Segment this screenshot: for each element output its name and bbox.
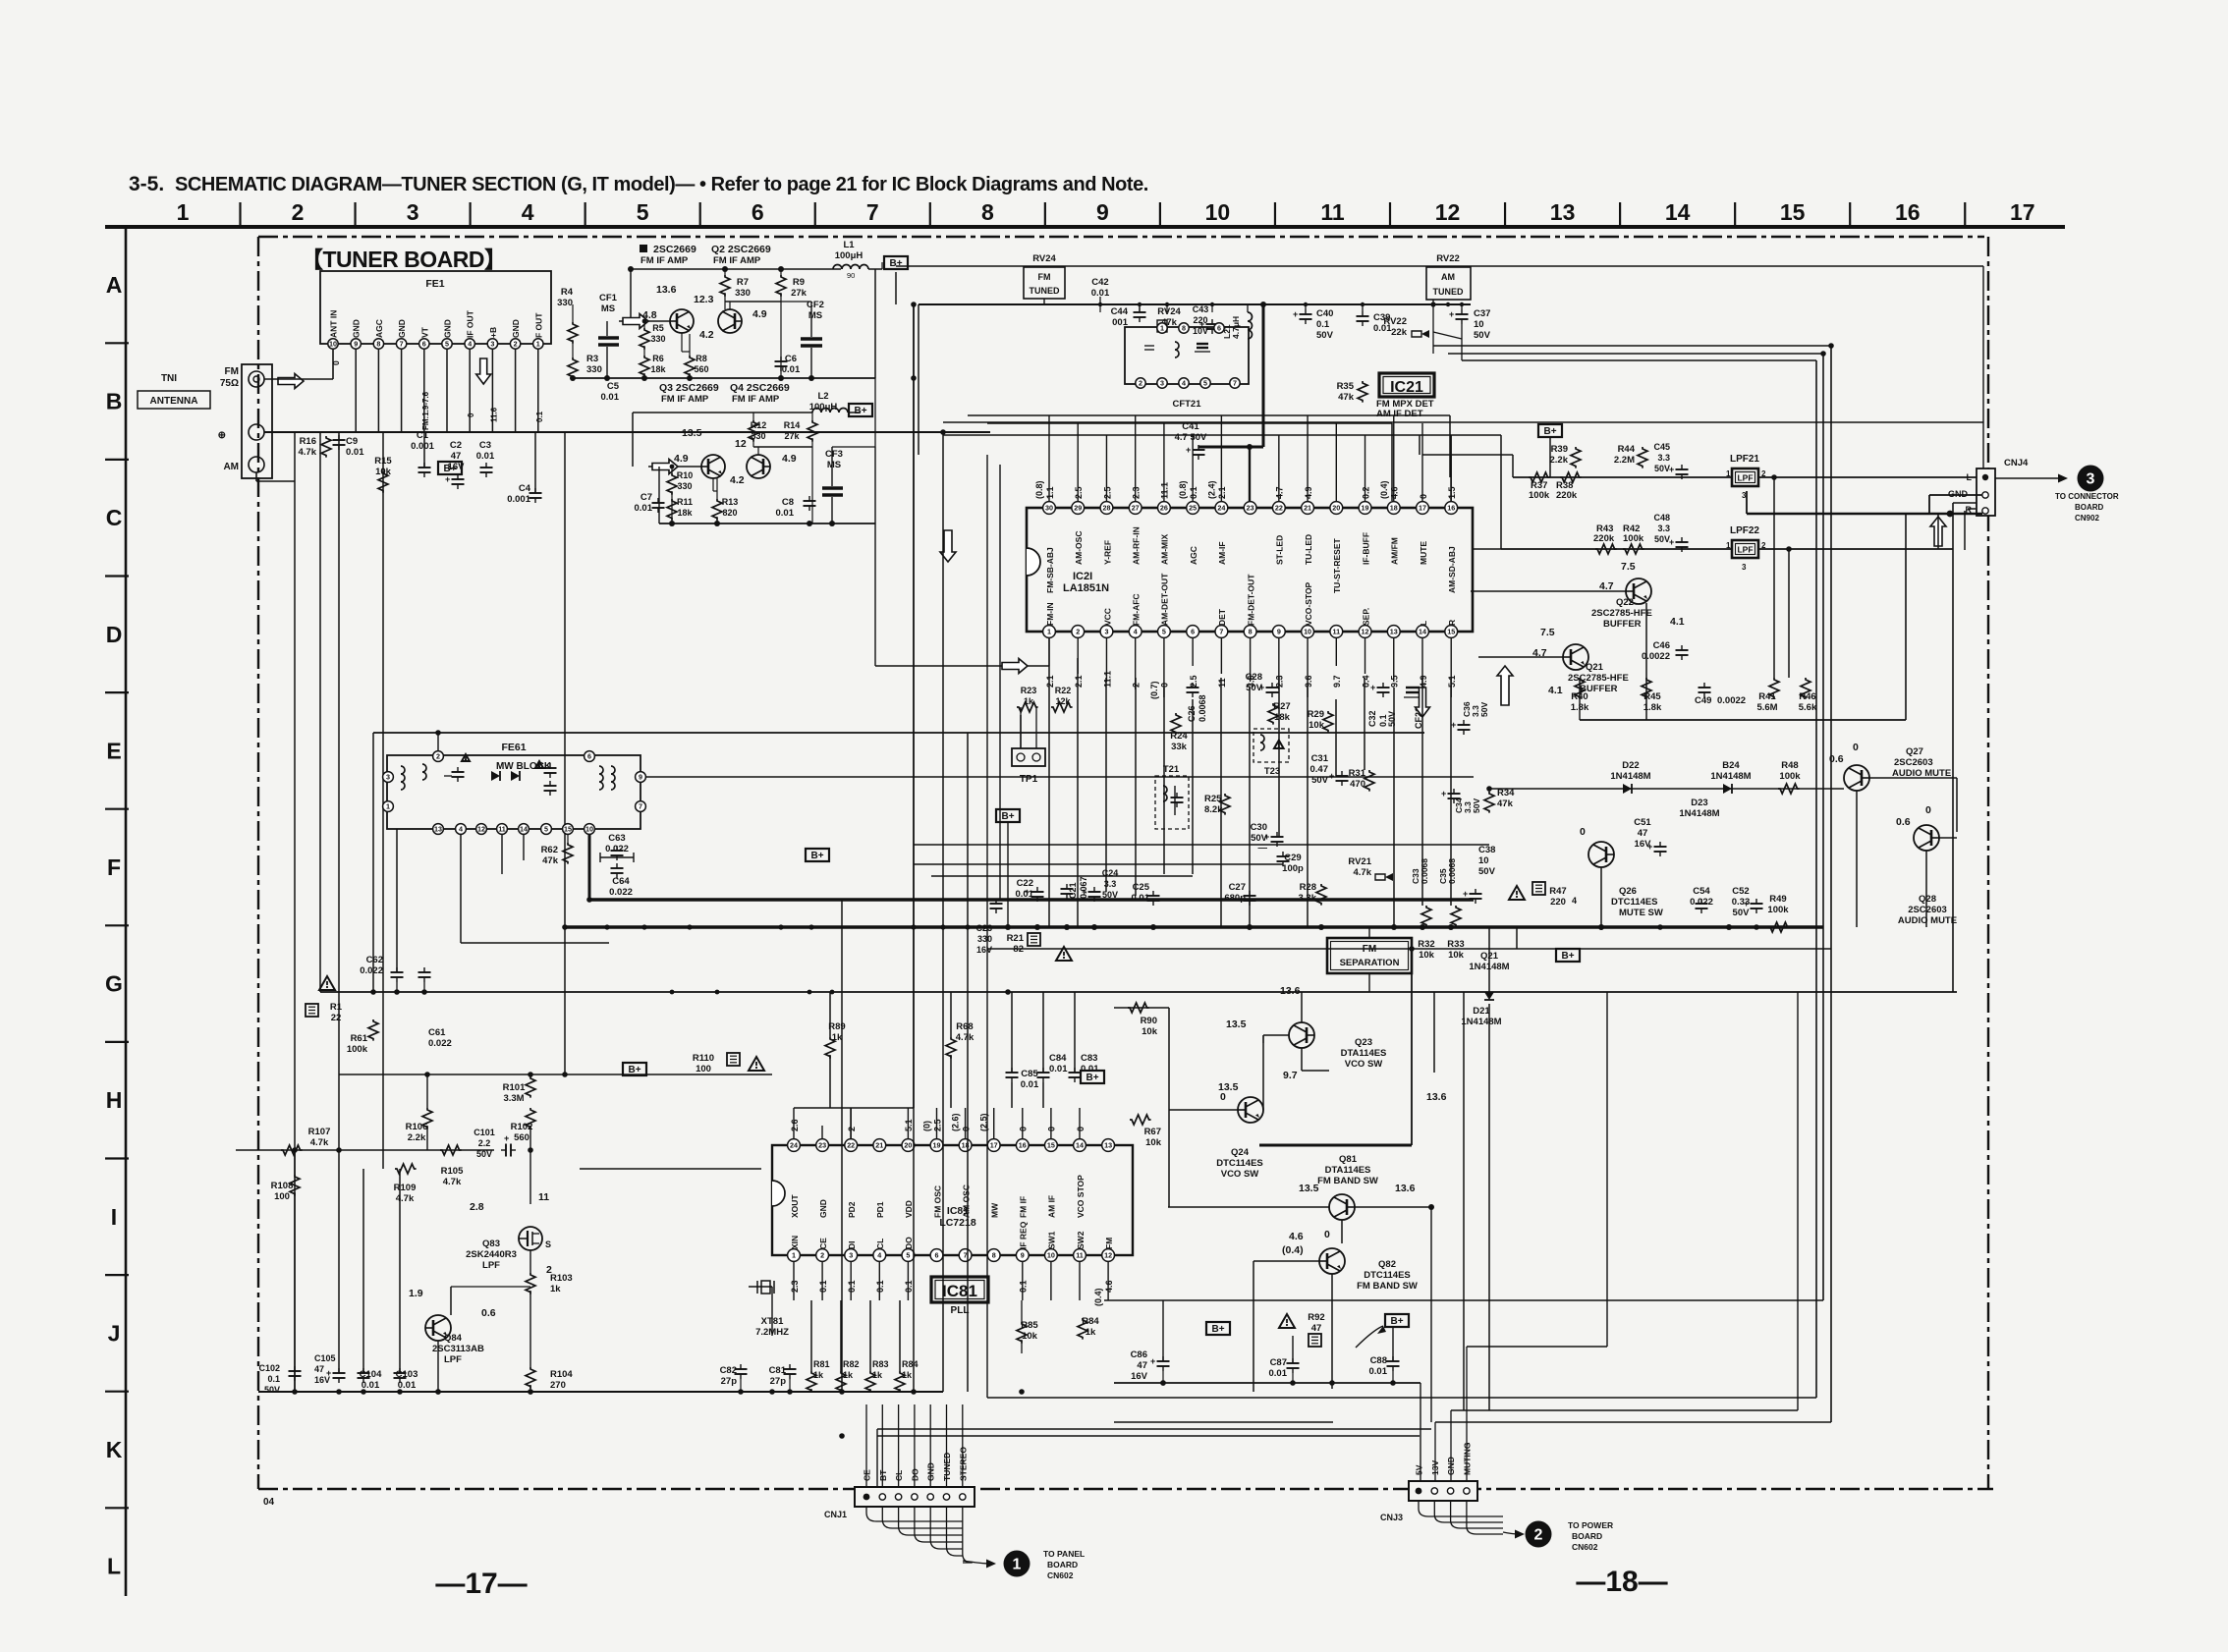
transistor Q28 audio mute	[1914, 825, 1939, 851]
svg-text:+: +	[504, 1133, 509, 1143]
svg-text:100: 100	[274, 1191, 290, 1202]
svg-text:2: 2	[436, 752, 440, 761]
svg-text:PD1: PD1	[875, 1201, 885, 1218]
svg-text:47: 47	[1311, 1323, 1322, 1334]
svg-text:C27: C27	[1229, 882, 1246, 893]
svg-text:7.2MHZ: 7.2MHZ	[755, 1327, 789, 1338]
bus wire y423	[968, 414, 1450, 416]
svg-text:5.6M: 5.6M	[1756, 702, 1777, 713]
transistor Q1	[670, 309, 694, 333]
svg-text:C86: C86	[1131, 1349, 1147, 1360]
svg-text:3.3M: 3.3M	[503, 1093, 524, 1104]
crystal XT81	[771, 1287, 773, 1336]
svg-text:90: 90	[847, 271, 855, 280]
svg-text:DTC114ES: DTC114ES	[1364, 1270, 1411, 1281]
wire LPF22 row	[1501, 548, 1733, 550]
svg-text:47: 47	[1638, 828, 1648, 839]
IC81 pin 1	[788, 1249, 801, 1262]
svg-text:0.067: 0.067	[1079, 876, 1088, 899]
wire Q1 emitter	[681, 333, 683, 352]
vertical x1528	[1500, 435, 1502, 549]
svg-text:75Ω: 75Ω	[220, 378, 239, 389]
front-end block FE1	[320, 271, 551, 344]
svg-text:RV22: RV22	[1383, 316, 1407, 327]
svg-text:0.01: 0.01	[346, 447, 364, 458]
svg-text:R9: R9	[793, 277, 805, 288]
svg-text:C26: C26	[1187, 705, 1197, 722]
svg-text:13.5: 13.5	[1299, 1183, 1319, 1194]
svg-text:330: 330	[677, 481, 692, 491]
B+ feed wire top right	[896, 265, 1983, 267]
svg-text:+: +	[1150, 1356, 1155, 1366]
svg-text:+: +	[1744, 899, 1749, 909]
svg-text:R101: R101	[503, 1082, 526, 1093]
svg-text:13: 13	[1104, 1141, 1112, 1150]
svg-text:22: 22	[1275, 504, 1283, 513]
IC2 pin 7	[1215, 626, 1228, 638]
IC2 pin 14	[1417, 626, 1429, 638]
svg-text:16V: 16V	[1131, 1371, 1148, 1382]
svg-text:50V: 50V	[1472, 798, 1481, 813]
svg-text:2.5: 2.5	[1102, 486, 1112, 499]
FE61 pin 1	[383, 801, 394, 812]
svg-text:C84: C84	[1049, 1053, 1067, 1064]
open arrow below IF OUT	[476, 358, 491, 384]
svg-text:GND: GND	[1948, 489, 1969, 499]
svg-text:BOARD: BOARD	[1572, 1531, 1602, 1541]
verticals under IC2 to rails	[1048, 666, 1050, 927]
svg-text:B+: B+	[889, 258, 902, 269]
IC81 pin 23	[816, 1139, 829, 1152]
svg-text:(2.6): (2.6)	[951, 1113, 961, 1131]
svg-text:5: 5	[906, 1251, 910, 1260]
svg-text:5.1: 5.1	[1447, 675, 1457, 688]
svg-text:LPF: LPF	[482, 1260, 500, 1271]
svg-text:FM-IN: FM-IN	[1045, 602, 1055, 626]
B+ box FE61	[806, 849, 829, 861]
tuner board border right	[1987, 237, 1989, 1489]
svg-text:R81: R81	[813, 1359, 830, 1369]
svg-text:+: +	[1451, 720, 1456, 730]
buffer cell bottom rail	[1580, 719, 1906, 721]
svg-text:R47: R47	[1549, 886, 1566, 897]
svg-text:FM-SB-ABJ: FM-SB-ABJ	[1045, 547, 1055, 593]
arrow into Q3	[648, 466, 701, 468]
svg-text:28: 28	[1102, 504, 1110, 513]
svg-text:FM: FM	[1038, 272, 1051, 282]
FE1 pin 5 GND	[442, 339, 452, 349]
svg-text:0.01: 0.01	[476, 451, 495, 462]
svg-text:3: 3	[1104, 628, 1108, 636]
svg-text:LPF: LPF	[1737, 545, 1753, 555]
svg-text:6: 6	[587, 752, 591, 761]
svg-text:0: 0	[961, 1127, 971, 1131]
svg-text:13: 13	[434, 825, 442, 834]
wire y1094	[339, 1074, 772, 1075]
svg-text:13.6: 13.6	[1426, 1091, 1447, 1103]
svg-text:Q4 2SC2669: Q4 2SC2669	[730, 382, 790, 394]
gnd wire cnj4	[1929, 494, 1982, 496]
junction dots various	[911, 375, 917, 381]
svg-text:11.1: 11.1	[1160, 482, 1170, 499]
wires right of IC2 to vertical bus	[1473, 548, 1501, 550]
open arrow down CF21	[1416, 688, 1430, 717]
svg-text:D23: D23	[1691, 798, 1707, 808]
svg-text:3: 3	[849, 1251, 853, 1260]
svg-text:100: 100	[696, 1064, 711, 1074]
IC2 pin 9	[1272, 626, 1285, 638]
svg-text:1: 1	[1726, 541, 1731, 550]
svg-text:BUFFER: BUFFER	[1603, 619, 1642, 630]
svg-text:7: 7	[866, 199, 879, 225]
svg-text:T21: T21	[1163, 764, 1180, 775]
svg-text:CNJ1: CNJ1	[824, 1510, 847, 1519]
svg-text:0: 0	[1853, 742, 1859, 753]
K row wire 2	[877, 1435, 1420, 1437]
svg-text:AUDIO MUTE: AUDIO MUTE	[1898, 915, 1957, 926]
svg-text:DTA114ES: DTA114ES	[1341, 1048, 1387, 1059]
svg-text:330: 330	[735, 288, 751, 299]
svg-text:GND: GND	[818, 1199, 828, 1218]
svg-text:Q83: Q83	[482, 1239, 500, 1249]
svg-text:47k: 47k	[1338, 392, 1355, 403]
svg-text:IC2I: IC2I	[1073, 571, 1092, 582]
svg-text:1N4148M: 1N4148M	[1710, 771, 1751, 782]
wire Q26 emitter down	[1600, 867, 1602, 927]
svg-text:FM BAND SW: FM BAND SW	[1357, 1281, 1418, 1292]
B+ box J row	[1385, 1314, 1409, 1327]
svg-text:Q84: Q84	[444, 1333, 463, 1344]
svg-text:0.0068: 0.0068	[1420, 858, 1429, 884]
svg-text:9.7: 9.7	[1332, 675, 1342, 688]
svg-text:50V: 50V	[264, 1385, 280, 1395]
upper IF amp bottom rail	[573, 377, 875, 379]
svg-text:C51: C51	[1634, 817, 1651, 828]
svg-text:SEP.: SEP.	[1361, 608, 1370, 626]
svg-text:15: 15	[1447, 628, 1455, 636]
svg-text:GND: GND	[511, 319, 521, 338]
svg-text:7.5: 7.5	[1540, 627, 1555, 638]
svg-text:F: F	[107, 854, 121, 880]
svg-text:FE61: FE61	[501, 742, 526, 753]
svg-text:6: 6	[1217, 324, 1221, 333]
svg-text:330: 330	[977, 934, 992, 944]
IC81 pin 15	[1045, 1139, 1058, 1152]
svg-text:2.2k: 2.2k	[1550, 455, 1569, 466]
svg-text:+B: +B	[488, 327, 498, 338]
svg-text:R107: R107	[308, 1127, 331, 1137]
svg-text:0: 0	[1324, 1229, 1330, 1240]
wire y1190	[580, 1168, 761, 1170]
IC2 pin 28	[1100, 502, 1113, 515]
svg-text:Q23: Q23	[1355, 1037, 1372, 1048]
svg-text:0.01: 0.01	[1369, 1366, 1388, 1377]
svg-text:E: E	[106, 738, 121, 763]
svg-text:50V: 50V	[1654, 534, 1670, 544]
svg-text:4.9: 4.9	[752, 308, 767, 320]
svg-text:1: 1	[792, 1251, 796, 1260]
svg-text:30: 30	[1045, 504, 1053, 513]
wire FM SEP stub	[1368, 973, 1370, 992]
svg-text:50V: 50V	[1387, 711, 1397, 727]
B+ box L1	[884, 256, 908, 269]
svg-text:+: +	[1441, 789, 1446, 798]
svg-text:5: 5	[637, 199, 649, 225]
svg-text:XOUT: XOUT	[790, 1194, 800, 1218]
svg-text:C105: C105	[314, 1353, 336, 1363]
svg-text:(0.8): (0.8)	[1034, 480, 1044, 499]
IC2 bottom pin wires	[1048, 638, 1050, 667]
transformer T23 dashed	[1253, 729, 1289, 762]
top ruler ticks	[239, 202, 241, 227]
svg-text:VDD: VDD	[904, 1200, 914, 1218]
svg-text:TP1: TP1	[1020, 774, 1038, 785]
wire bus from IC81 top to left	[794, 1107, 914, 1109]
svg-text:100k: 100k	[1623, 533, 1644, 544]
LPF vertical wires	[529, 1126, 531, 1204]
svg-text:AGC: AGC	[1189, 546, 1198, 565]
svg-text:4: 4	[1134, 628, 1138, 636]
FE61 pin 2	[433, 751, 444, 762]
svg-text:2SC2603: 2SC2603	[1908, 905, 1947, 915]
FE1 pin 1 F OUT	[533, 339, 543, 349]
svg-text:220k: 220k	[1556, 490, 1578, 501]
svg-text:PLL: PLL	[951, 1305, 970, 1316]
svg-text:4: 4	[1182, 379, 1186, 388]
svg-text:2: 2	[292, 199, 305, 225]
wire LPF21 row	[1513, 476, 1733, 478]
svg-text:20: 20	[904, 1141, 912, 1150]
svg-text:2SC3113AB: 2SC3113AB	[432, 1344, 484, 1354]
FE61 pin 9	[636, 772, 646, 783]
svg-text:2.5: 2.5	[1074, 486, 1084, 499]
svg-text:50V: 50V	[1654, 464, 1670, 473]
svg-text:AM-IF: AM-IF	[1217, 541, 1227, 565]
wire y1371 to CNJ3 muting	[1467, 1346, 1607, 1348]
svg-text:GND: GND	[397, 319, 407, 338]
svg-text:560: 560	[514, 1132, 529, 1143]
transistor Q4	[747, 455, 770, 478]
svg-text:PD2: PD2	[847, 1201, 857, 1218]
svg-text:23: 23	[1247, 504, 1254, 513]
svg-text:9.5: 9.5	[1390, 675, 1400, 688]
svg-text:2.5: 2.5	[932, 1119, 942, 1131]
svg-text:100k: 100k	[1767, 905, 1789, 915]
svg-text:0.1: 0.1	[904, 1280, 914, 1293]
svg-text:R11: R11	[677, 497, 693, 507]
svg-text:RV24: RV24	[1032, 253, 1056, 264]
wire R90 to Q23	[1114, 1007, 1169, 1009]
svg-text:2.1: 2.1	[1045, 675, 1055, 688]
IC2 pin 30	[1043, 502, 1056, 515]
IC2 pin 24	[1215, 502, 1228, 515]
svg-text:1N4148M: 1N4148M	[1469, 962, 1509, 972]
svg-text:6: 6	[935, 1251, 939, 1260]
svg-text:4.7k: 4.7k	[956, 1032, 975, 1043]
IC81 pin 12	[1102, 1249, 1115, 1262]
svg-text:2.8: 2.8	[470, 1201, 484, 1213]
svg-text:4.6: 4.6	[1289, 1231, 1304, 1242]
svg-text:C44: C44	[1111, 306, 1129, 317]
CNJ1 pin wires to panel	[866, 1507, 963, 1521]
svg-text:R22: R22	[1055, 686, 1072, 695]
svg-text:21: 21	[875, 1141, 883, 1150]
svg-text:CE: CE	[818, 1238, 828, 1249]
svg-text:0.022: 0.022	[360, 965, 383, 976]
svg-text:C28: C28	[1246, 672, 1262, 683]
svg-text:20: 20	[1332, 504, 1340, 513]
svg-text:B+: B+	[443, 464, 456, 474]
svg-text:4.7k: 4.7k	[396, 1193, 415, 1204]
svg-text:0: 0	[1419, 494, 1428, 499]
rail y1010	[320, 991, 1957, 993]
arrow from FM jack	[278, 374, 304, 389]
svg-text:CF1: CF1	[599, 293, 618, 303]
svg-text:R92: R92	[1308, 1312, 1324, 1323]
svg-text:2.3: 2.3	[790, 1280, 800, 1293]
svg-text:R62: R62	[541, 845, 558, 855]
svg-text:11.1: 11.1	[1102, 671, 1112, 688]
svg-text:R23: R23	[1021, 686, 1037, 695]
svg-text:2.2k: 2.2k	[408, 1132, 426, 1143]
svg-text:27: 27	[1132, 504, 1140, 513]
svg-text:19: 19	[1362, 504, 1369, 513]
svg-text:4.2: 4.2	[730, 474, 745, 486]
FM TUNED wire stubs	[1099, 304, 1101, 312]
svg-text:FM: FM	[1104, 1238, 1114, 1249]
transistor Q84	[425, 1315, 451, 1341]
svg-text:12.3: 12.3	[694, 294, 714, 305]
svg-text:3: 3	[386, 773, 390, 782]
B+ box H row	[1081, 1071, 1104, 1083]
IC2 top pin wires	[1048, 415, 1050, 502]
extra rail dots	[604, 924, 609, 929]
svg-text:AM-SD-ABJ: AM-SD-ABJ	[1447, 546, 1457, 593]
svg-text:18k: 18k	[677, 508, 693, 518]
svg-text:1N4148M: 1N4148M	[1461, 1017, 1501, 1027]
svg-text:IC81: IC81	[942, 1282, 977, 1300]
IC2 pin 3	[1100, 626, 1113, 638]
IC81 pin 16	[1016, 1139, 1029, 1152]
svg-text:4.1: 4.1	[1670, 616, 1685, 628]
svg-text:+: +	[1463, 889, 1468, 899]
svg-text:0.1: 0.1	[1189, 486, 1198, 499]
svg-text:R90: R90	[1141, 1016, 1157, 1026]
svg-text:+: +	[1186, 445, 1191, 455]
svg-text:12: 12	[735, 438, 747, 450]
IC2 pin 18	[1387, 502, 1400, 515]
svg-text:100k: 100k	[1529, 490, 1550, 501]
svg-text:CNJ3: CNJ3	[1380, 1513, 1403, 1522]
wires top right from RV22 region	[1433, 345, 1831, 347]
wire from IC2 pin16 to right	[1450, 455, 1452, 501]
FE61 pin10 thick wire	[588, 835, 591, 900]
svg-text:J: J	[108, 1320, 121, 1346]
svg-text:26: 26	[1160, 504, 1168, 513]
svg-text:XT81: XT81	[761, 1316, 784, 1327]
svg-text:AM-MIX: AM-MIX	[1160, 534, 1170, 565]
svg-text:21: 21	[1304, 504, 1311, 513]
svg-text:R83: R83	[872, 1359, 889, 1369]
LPF22 out vertical with arrow	[1937, 514, 1939, 549]
wire Q4 collector	[757, 447, 759, 455]
svg-text:9: 9	[1277, 628, 1281, 636]
svg-text:DET: DET	[1217, 608, 1227, 626]
svg-text:4.7: 4.7	[1275, 486, 1285, 499]
svg-text:IF REQ: IF REQ	[1019, 1221, 1029, 1249]
svg-text:C42: C42	[1091, 277, 1108, 288]
svg-text:+: +	[1669, 537, 1674, 547]
svg-text:CF3: CF3	[825, 449, 843, 460]
svg-text:C31: C31	[1311, 753, 1329, 764]
svg-text:+: +	[1449, 309, 1454, 319]
svg-text:R16: R16	[300, 436, 316, 447]
svg-text:C49: C49	[1695, 695, 1711, 706]
IC2 pin 5	[1158, 626, 1171, 638]
tuner board border bottom	[258, 1488, 1993, 1490]
svg-text:1.9: 1.9	[409, 1288, 423, 1299]
svg-text:R5: R5	[652, 323, 664, 333]
top ruler line	[105, 225, 2065, 229]
FE61 top wire	[373, 732, 1424, 734]
svg-text:(0.4): (0.4)	[1282, 1244, 1304, 1256]
svg-text:TNI: TNI	[161, 373, 177, 384]
svg-text:0.6: 0.6	[1829, 753, 1844, 765]
lower IF amp box	[633, 412, 812, 413]
svg-text:220: 220	[1550, 897, 1566, 908]
svg-text:K: K	[106, 1437, 123, 1462]
svg-text:7: 7	[1219, 628, 1223, 636]
svg-text:0.1: 0.1	[535, 411, 544, 422]
svg-text:FM IF AMP: FM IF AMP	[661, 394, 709, 405]
svg-text:10: 10	[1205, 199, 1231, 225]
wire antenna AM down	[255, 472, 257, 481]
svg-text:6: 6	[752, 199, 764, 225]
svg-text:Q21: Q21	[1480, 951, 1499, 962]
IC2 pin 1	[1043, 626, 1056, 638]
FE1 pin 10 ANT IN	[328, 339, 338, 349]
IC81 pin 22	[845, 1139, 858, 1152]
IC81 pin 19	[930, 1139, 943, 1152]
warning near R47	[1509, 886, 1525, 900]
svg-text:2SC2785-HFE: 2SC2785-HFE	[1568, 673, 1629, 684]
svg-text:4.6: 4.6	[1104, 1280, 1114, 1293]
svg-text:A: A	[106, 272, 123, 298]
svg-text:(0.4): (0.4)	[1093, 1288, 1103, 1306]
svg-text:22: 22	[331, 1013, 342, 1023]
svg-text:4.7k: 4.7k	[299, 447, 317, 458]
IC81 pin 3	[845, 1249, 858, 1262]
wires under IC81	[740, 1379, 742, 1392]
svg-text:0: 0	[1925, 804, 1931, 816]
svg-text:10k: 10k	[1448, 950, 1465, 961]
IC2 pin 25	[1187, 502, 1199, 515]
svg-text:2.6: 2.6	[790, 1119, 800, 1131]
svg-text:11: 11	[538, 1191, 549, 1203]
svg-text:1: 1	[536, 340, 540, 349]
svg-text:11: 11	[1320, 199, 1345, 225]
left ruler line	[125, 227, 128, 1596]
wire y966 to Q23	[987, 948, 1831, 950]
svg-text:0.1: 0.1	[267, 1374, 280, 1384]
svg-text:DO: DO	[904, 1237, 914, 1249]
svg-text:13.6: 13.6	[656, 284, 677, 296]
svg-text:3: 3	[407, 199, 419, 225]
svg-text:15: 15	[564, 825, 572, 834]
vertical x1005	[986, 455, 988, 1398]
svg-text:R104: R104	[550, 1369, 573, 1380]
svg-text:0.47: 0.47	[1310, 764, 1329, 775]
